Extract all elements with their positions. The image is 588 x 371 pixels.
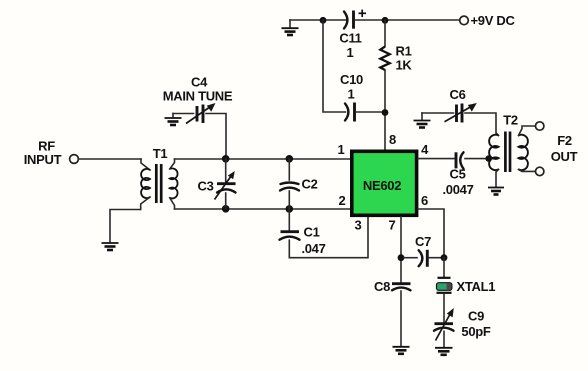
svg-text:1: 1 bbox=[347, 45, 354, 60]
terminal +9V DC bbox=[460, 16, 469, 25]
ground bbox=[414, 113, 431, 128]
ground bbox=[488, 188, 504, 195]
svg-text:T1: T1 bbox=[153, 146, 168, 161]
node junction C2 bottom rail bbox=[286, 205, 294, 213]
terminal F2 OUT top bbox=[536, 122, 544, 130]
wire pin 4 to C5 bbox=[418, 158, 454, 160]
svg-text:T2: T2 bbox=[503, 113, 518, 128]
node junction pin7/C7/C8 bbox=[398, 254, 405, 261]
capacitor C7 bbox=[419, 250, 428, 267]
svg-text:1: 1 bbox=[338, 142, 345, 157]
capacitor C11 bbox=[344, 10, 366, 29]
wire pin1 rail T1 secondary to chip bbox=[175, 158, 351, 160]
node junction C4/C3 top rail bbox=[222, 155, 230, 163]
wire C6 to T2 primary top bbox=[465, 113, 499, 136]
ground bbox=[393, 347, 410, 354]
svg-text:6: 6 bbox=[421, 193, 428, 208]
wire C7 to junction bbox=[429, 257, 444, 259]
svg-text:2: 2 bbox=[339, 193, 346, 208]
capacitor C3 variable bbox=[215, 159, 236, 209]
capacitor C10 bbox=[345, 103, 355, 122]
svg-text:3: 3 bbox=[355, 218, 362, 233]
svg-text:C9: C9 bbox=[468, 309, 484, 324]
wire pin 6 bbox=[418, 209, 444, 258]
capacitor C4 variable bbox=[186, 103, 216, 124]
transformer T2 bbox=[489, 126, 535, 186]
wire C5 to T2 bbox=[465, 158, 488, 160]
capacitor C1 bbox=[280, 209, 369, 258]
svg-text:C2: C2 bbox=[301, 177, 317, 192]
svg-text:1: 1 bbox=[348, 87, 355, 102]
svg-text:C1: C1 bbox=[303, 225, 319, 240]
svg-text:.047: .047 bbox=[301, 241, 325, 256]
svg-text:+9V DC: +9V DC bbox=[471, 13, 516, 28]
svg-text:C7: C7 bbox=[415, 234, 431, 249]
svg-text:NE602: NE602 bbox=[363, 178, 401, 193]
svg-text:50pF: 50pF bbox=[461, 324, 491, 339]
capacitor C9 variable bbox=[434, 308, 454, 346]
wire ground to C6 bbox=[422, 112, 454, 114]
capacitor C2 bbox=[280, 159, 299, 209]
svg-text:C4: C4 bbox=[191, 75, 208, 90]
node junction R1 / C10 / pin8 bbox=[382, 109, 389, 116]
terminal F2 OUT bottom bbox=[536, 167, 544, 175]
svg-text:C11: C11 bbox=[339, 31, 361, 46]
terminal RF INPUT bbox=[70, 155, 79, 164]
capacitor C6 variable bbox=[445, 103, 477, 123]
node junction C7/XTAL/pin6 bbox=[441, 254, 448, 261]
node junction R1 top / top rail bbox=[382, 17, 389, 24]
svg-text:4: 4 bbox=[421, 142, 429, 157]
wire RF input to T1 bbox=[79, 158, 141, 160]
wire C10 to R1 bottom junction bbox=[356, 111, 385, 113]
svg-text:R1: R1 bbox=[396, 44, 412, 59]
wire pin2 rail T1 secondary to chip bbox=[175, 208, 351, 210]
ground bbox=[165, 114, 182, 126]
node junction C2 top rail bbox=[286, 155, 294, 163]
ground bbox=[435, 348, 453, 355]
crystal XTAL1 bbox=[437, 258, 452, 322]
capacitor C8 bbox=[392, 284, 411, 346]
wire T1 primary bottom to ground bbox=[110, 210, 141, 243]
wire C11 to +9V bbox=[355, 19, 459, 21]
svg-text:C6: C6 bbox=[449, 87, 465, 102]
capacitor C5 bbox=[456, 152, 464, 169]
node junction C5/T2 primary tap bbox=[485, 155, 492, 162]
node junction C11 left / top rail bbox=[320, 17, 327, 24]
svg-text:C8: C8 bbox=[374, 279, 390, 294]
wire ground to C11 bbox=[290, 19, 346, 21]
svg-text:XTAL1: XTAL1 bbox=[457, 279, 496, 294]
svg-text:C5: C5 bbox=[449, 167, 465, 182]
svg-text:MAIN TUNE: MAIN TUNE bbox=[163, 89, 233, 104]
ground bbox=[102, 243, 119, 250]
svg-text:F2: F2 bbox=[557, 133, 572, 148]
wire left branch C11 to C10 bbox=[323, 20, 346, 112]
resistor R1 bbox=[380, 20, 389, 149]
svg-text:.0047: .0047 bbox=[442, 182, 473, 197]
svg-text:INPUT: INPUT bbox=[24, 152, 62, 167]
svg-text:C10: C10 bbox=[340, 72, 363, 87]
wire C4 to junction bbox=[206, 114, 226, 159]
svg-text:OUT: OUT bbox=[551, 149, 578, 164]
ground bbox=[282, 20, 299, 35]
IC U1 NE602 bbox=[352, 151, 417, 215]
svg-text:8: 8 bbox=[389, 132, 396, 147]
wire junction to C7 bbox=[404, 257, 417, 259]
svg-text:7: 7 bbox=[389, 218, 396, 233]
wire pin 7 down bbox=[400, 217, 402, 282]
transformer T1 bbox=[141, 159, 178, 210]
svg-text:1K: 1K bbox=[396, 58, 413, 73]
wire ground to C4 bbox=[173, 113, 194, 115]
node junction C3 bottom rail bbox=[222, 205, 230, 213]
svg-text:C3: C3 bbox=[197, 179, 213, 194]
